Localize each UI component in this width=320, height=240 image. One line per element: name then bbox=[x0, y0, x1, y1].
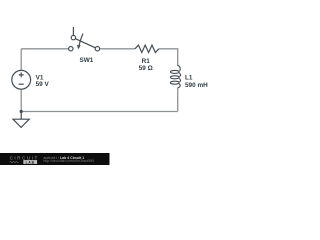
svg-text:L1: L1 bbox=[185, 74, 193, 81]
svg-text:LAB: LAB bbox=[26, 160, 35, 164]
svg-text:59 Ω: 59 Ω bbox=[139, 65, 153, 72]
svg-text:59 V: 59 V bbox=[36, 81, 50, 88]
svg-text:590 mH: 590 mH bbox=[185, 82, 208, 89]
svg-text:SW1: SW1 bbox=[79, 57, 93, 64]
svg-text:R1: R1 bbox=[142, 58, 151, 65]
svg-text:http://circuitlab.com/c/hn3bsu: http://circuitlab.com/c/hn3bsuf585 bbox=[44, 159, 95, 163]
